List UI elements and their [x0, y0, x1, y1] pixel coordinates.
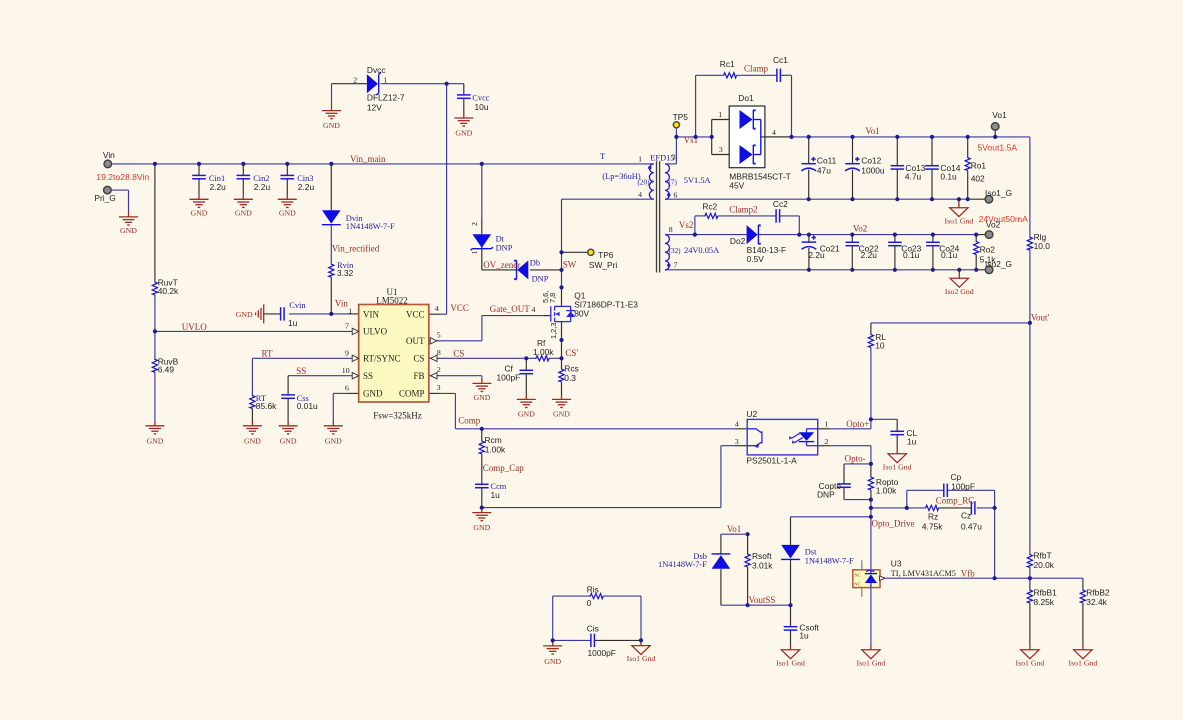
svg-text:10.0: 10.0 — [1034, 241, 1051, 251]
svg-text:Vfb: Vfb — [961, 569, 975, 579]
svg-text:9: 9 — [345, 349, 349, 358]
wire Copto loop — [844, 464, 871, 500]
svg-text:8.25k: 8.25k — [1034, 597, 1055, 607]
svg-text:Vo2: Vo2 — [986, 219, 1001, 229]
svg-text:3: 3 — [719, 145, 723, 154]
capacitor Cis — [587, 624, 616, 658]
svg-text:3.32: 3.32 — [337, 268, 354, 278]
svg-text:CS': CS' — [565, 348, 578, 358]
diode Dsb 1N4148W-7-F — [658, 552, 730, 569]
svg-text:FB: FB — [413, 371, 424, 381]
svg-text:2: 2 — [470, 222, 479, 226]
diode Dst 1N4148W-7-F — [781, 545, 854, 566]
svg-text:GND: GND — [325, 436, 342, 445]
capacitor Cc1 — [773, 55, 788, 82]
wire Ccm junction to opto pin3 — [482, 446, 747, 508]
label net UVLO — [182, 322, 207, 332]
svg-text:12V: 12V — [367, 102, 382, 112]
wire Cf branch — [525, 358, 527, 394]
svg-text:Gate_OUT: Gate_OUT — [490, 304, 530, 314]
resistor Rsoft — [745, 551, 773, 570]
svg-text:(32): (32) — [669, 247, 682, 255]
svg-text:4: 4 — [435, 304, 439, 313]
wire Ro1 leads — [967, 137, 969, 199]
resistor Rc1 — [720, 59, 737, 78]
svg-text:10u: 10u — [475, 102, 489, 112]
resistor RuvB — [152, 356, 178, 374]
svg-text:Iso2_G: Iso2_G — [985, 259, 1012, 269]
ground GND (Pri_G) — [119, 212, 138, 235]
Q1 labels — [541, 290, 639, 339]
svg-text:Opto-: Opto- — [845, 453, 866, 463]
svg-text:1: 1 — [825, 420, 829, 429]
svg-text:Do1: Do1 — [738, 93, 754, 103]
svg-text:8: 8 — [669, 225, 673, 234]
svg-text:5: 5 — [437, 331, 441, 340]
svg-text:(7): (7) — [669, 179, 678, 187]
capacitor Cin2 — [237, 164, 271, 195]
wire Dt branch from Vin_main — [482, 164, 518, 270]
wire transformer pin1 from bus — [645, 163, 654, 165]
capacitor Co12 polarized — [845, 155, 885, 175]
svg-text:Rcm: Rcm — [485, 435, 502, 445]
label net Comp — [458, 416, 481, 426]
wire Vo1 port stub — [994, 130, 996, 137]
svg-text:Opto+: Opto+ — [846, 419, 869, 429]
svg-text:1u: 1u — [288, 318, 298, 328]
svg-text:1: 1 — [348, 307, 352, 316]
svg-text:4.7u: 4.7u — [905, 172, 922, 182]
label net Vo1 (rail) — [865, 126, 879, 136]
wire Do1 input bracket — [712, 120, 740, 155]
svg-text:3: 3 — [672, 153, 676, 162]
label 5Vout1.5A — [977, 142, 1017, 152]
wire Ro2 leads — [975, 235, 977, 270]
svg-text:Fsw=325kHz: Fsw=325kHz — [373, 410, 422, 420]
resistor RuvT — [152, 278, 179, 296]
transistor Q1 SI7186DP MOSFET — [551, 305, 575, 326]
capacitor Co13 — [891, 163, 926, 182]
svg-text:Vin: Vin — [335, 299, 348, 309]
capacitor Co22 — [846, 242, 879, 260]
svg-text:Rc1: Rc1 — [720, 59, 735, 69]
svg-text:2.2u: 2.2u — [861, 250, 878, 260]
svg-text:NC: NC — [854, 572, 860, 577]
wire RT branch — [252, 358, 358, 422]
wire Db to SW — [530, 269, 561, 271]
svg-text:RT: RT — [262, 348, 273, 358]
ground GND (U1 pin6) — [324, 421, 343, 446]
label net Vin (pin1) — [335, 299, 352, 316]
label net VCC — [450, 303, 469, 313]
capacitor CL — [890, 428, 917, 446]
svg-text:U3: U3 — [891, 559, 902, 569]
svg-text:2.2u: 2.2u — [808, 250, 825, 260]
wire FB pin to GND — [429, 376, 482, 379]
label net CS — [453, 349, 464, 359]
wire CL branch — [871, 419, 897, 449]
svg-text:GND: GND — [363, 389, 383, 399]
svg-text:2: 2 — [437, 365, 441, 374]
wire Opto_Drive row (Rz Cz) — [871, 508, 995, 578]
wire Cp loop — [907, 490, 995, 508]
wire transformer pin4 to SW — [562, 198, 654, 200]
wire VCC net vertical — [429, 84, 447, 315]
port Vo1 — [991, 110, 1007, 130]
svg-text:3: 3 — [437, 383, 441, 392]
wire Vout' to RfbT — [1029, 323, 1031, 578]
wire Vo1 rail — [765, 137, 1030, 323]
ground GND (Cf) — [517, 394, 536, 418]
capacitor Cin1 — [192, 164, 226, 195]
svg-text:Vout': Vout' — [1031, 312, 1050, 322]
wire UVLO — [155, 330, 359, 332]
wire RuvT/RuvB divider column — [154, 164, 156, 421]
svg-text:GND: GND — [553, 410, 570, 419]
U1 output/CS/FB arrows — [430, 338, 437, 379]
svg-text:Vin_rectified: Vin_rectified — [332, 244, 380, 254]
label net Vout' — [1031, 312, 1050, 322]
svg-text:1,2,3: 1,2,3 — [549, 323, 558, 339]
capacitor Cin3 — [281, 164, 315, 195]
U1 pin numbers — [342, 304, 441, 393]
svg-text:Ro1: Ro1 — [971, 160, 987, 170]
wire Vfb row — [886, 577, 1083, 579]
svg-text:Cvin: Cvin — [289, 301, 306, 310]
svg-text:4: 4 — [772, 128, 776, 137]
port Vo2 — [985, 219, 1000, 238]
svg-text:Cc2: Cc2 — [773, 199, 788, 209]
svg-text:EFD15: EFD15 — [650, 153, 674, 162]
svg-text:Vs2: Vs2 — [679, 220, 694, 230]
svg-text:NC: NC — [854, 582, 860, 587]
ground Iso1 Gnd (U3) — [856, 645, 885, 668]
label net VoutSS — [749, 595, 776, 605]
wire Rcm / Ccm branch — [481, 429, 483, 508]
svg-text:PS2501L-1-A: PS2501L-1-A — [746, 455, 797, 465]
svg-text:T: T — [600, 152, 605, 161]
ground GND (Cvcc) — [454, 113, 473, 137]
diode Dt zener DNP — [470, 222, 512, 255]
svg-text:1000u: 1000u — [861, 166, 885, 176]
svg-text:1: 1 — [718, 110, 722, 119]
resistor RL — [868, 332, 886, 351]
svg-text:1N4148W-7-F: 1N4148W-7-F — [346, 222, 395, 231]
label net Clamp — [744, 64, 768, 74]
svg-text:GND: GND — [120, 226, 137, 235]
wire opto pin1 / Opto+ node — [818, 419, 871, 429]
wire RfbB2 branch — [1082, 578, 1084, 645]
svg-text:SW: SW — [563, 260, 577, 270]
svg-text:TP5: TP5 — [673, 112, 689, 122]
svg-text:(Lp=36uH): (Lp=36uH) — [602, 172, 640, 181]
capacitor Copto DNP — [817, 481, 851, 500]
svg-text:Clamp2: Clamp2 — [729, 204, 758, 214]
ground Iso1 Gnd (RfbB2) — [1068, 645, 1097, 668]
svg-text:SS: SS — [363, 371, 373, 381]
svg-text:0.3: 0.3 — [564, 373, 576, 383]
label 24Vout50mA — [979, 214, 1028, 224]
svg-text:Db: Db — [530, 258, 540, 267]
wire Pri_G to GND — [111, 190, 129, 212]
svg-text:85.6k: 85.6k — [256, 401, 277, 411]
ground Iso1 Gnd (Csoft) — [776, 645, 805, 668]
wire Csoft branch — [790, 605, 792, 645]
port Pri_G — [94, 186, 115, 203]
svg-text:GND: GND — [279, 208, 296, 217]
label net Opto+ — [846, 419, 869, 429]
wire GND pin 6 — [333, 393, 358, 421]
wire Ropto branch — [870, 464, 872, 500]
svg-text:Cc1: Cc1 — [773, 55, 788, 65]
wire transformer pin3 / Vs1 / TP5 — [665, 128, 712, 164]
svg-text:OUT: OUT — [406, 336, 425, 346]
optocoupler U2 PS2501L-1-A — [746, 409, 817, 466]
svg-text:GND: GND — [473, 393, 490, 402]
resistor Ro1 — [965, 157, 986, 184]
capacitor Co23 — [888, 242, 922, 260]
ground GND (Cis) — [543, 641, 562, 666]
wire Vin_main bus — [111, 163, 645, 165]
svg-text:0.47u: 0.47u — [961, 521, 982, 531]
svg-text:1u: 1u — [799, 631, 809, 641]
U2 pin numbers — [735, 420, 829, 446]
capacitor Co11 polarized — [801, 155, 836, 175]
capacitor Cvcc — [457, 93, 490, 112]
svg-text:Dst: Dst — [805, 548, 817, 557]
ground Iso1 Gnd (output1) — [944, 199, 973, 225]
wire TP6 stub — [562, 251, 588, 253]
transformer T EFD15 — [648, 161, 670, 272]
svg-text:Ris: Ris — [587, 585, 599, 595]
label net Comp_RC — [936, 495, 975, 505]
svg-text:2.2u: 2.2u — [254, 182, 271, 192]
svg-text:32.4k: 32.4k — [1086, 597, 1107, 607]
svg-text:GND: GND — [544, 657, 561, 666]
wire Rlg column (Vout' feed) — [871, 323, 1030, 419]
svg-text:6.49: 6.49 — [158, 364, 175, 374]
svg-text:Iso1 Gnd: Iso1 Gnd — [883, 462, 912, 471]
capacitor Cvin — [281, 301, 307, 328]
svg-text:6: 6 — [345, 384, 349, 393]
svg-text:20.0k: 20.0k — [1034, 560, 1055, 570]
wire U3 cathode/anode column — [870, 588, 872, 645]
ground GND (Cin1) — [190, 194, 209, 217]
ground Iso1 Gnd (RfbB1) — [1015, 645, 1044, 668]
port Iso2_G — [985, 259, 1012, 274]
ground GND (RuvB) — [145, 421, 164, 446]
svg-text:Vin: Vin — [103, 150, 115, 160]
diode Do2 B140-13-F — [730, 225, 786, 264]
diode Dvcc zener DFLZ12-7 — [353, 65, 405, 112]
wire SS branch / Css — [288, 376, 359, 422]
label net Vfb — [961, 569, 975, 579]
svg-text:100pF: 100pF — [497, 373, 521, 383]
resistor Rcm — [479, 435, 506, 455]
wire COMP net — [429, 393, 747, 428]
label net Vo1 (soft-start stub) — [727, 524, 741, 534]
svg-text:VIN: VIN — [363, 309, 379, 319]
svg-text:GND: GND — [323, 121, 340, 130]
ground GND (Cin2) — [234, 194, 253, 217]
svg-text:Rz: Rz — [928, 511, 938, 521]
svg-text:24V0.05A: 24V0.05A — [684, 246, 719, 255]
svg-text:1: 1 — [383, 75, 387, 84]
svg-text:4: 4 — [638, 190, 642, 199]
svg-text:TP6: TP6 — [598, 250, 614, 260]
svg-text:1: 1 — [470, 251, 479, 255]
svg-text:Rc2: Rc2 — [702, 201, 717, 211]
svg-text:Vo1: Vo1 — [865, 126, 879, 136]
port Iso1_G — [985, 188, 1012, 203]
resistor RfbT — [1027, 550, 1055, 570]
wire Dvin/Rvin branch — [330, 164, 332, 314]
svg-text:GND: GND — [235, 208, 252, 217]
testpoint TP6 — [588, 249, 618, 270]
svg-text:GND: GND — [280, 436, 297, 445]
svg-text:Dt: Dt — [496, 234, 505, 243]
label net Opto_Drive — [872, 519, 915, 529]
svg-text:0.1u: 0.1u — [903, 250, 920, 260]
resistor RfbB1 — [1027, 587, 1057, 607]
resistor Ris — [587, 585, 604, 608]
svg-text:GND: GND — [455, 128, 472, 137]
svg-text:3: 3 — [735, 437, 739, 446]
svg-text:GND: GND — [191, 208, 208, 217]
resistor Rlg — [1027, 232, 1050, 251]
svg-text:DFLZ12-7: DFLZ12-7 — [367, 93, 405, 103]
label net SW — [563, 260, 577, 270]
port Vin — [103, 150, 115, 168]
svg-text:Vin_main: Vin_main — [350, 154, 386, 164]
svg-text:Do2: Do2 — [730, 236, 746, 246]
svg-text:4: 4 — [532, 305, 536, 314]
wire Dvcc anode to GND — [332, 84, 367, 106]
svg-text:0.1u: 0.1u — [941, 250, 958, 260]
label net Opto- — [845, 453, 866, 463]
wire Dvcc cathode / Cvcc — [381, 84, 464, 113]
wire Rc1 Cc1 clamp loop — [696, 75, 792, 137]
wire VIN pin / Cvin — [264, 313, 359, 315]
label 19.2to28.8Vin — [96, 172, 149, 182]
U1 input pin arrows — [352, 328, 359, 379]
wire Rc2 Cc2 clamp loop — [695, 216, 799, 235]
svg-text:40.2k: 40.2k — [158, 286, 179, 296]
capacitor Co21 polarized — [802, 235, 841, 260]
svg-text:2.2u: 2.2u — [298, 182, 315, 192]
svg-text:VoutSS: VoutSS — [749, 595, 776, 605]
label net Vs1 and testpoint TP5 — [673, 112, 699, 145]
label Fsw=325kHz — [373, 410, 422, 420]
wire Co21 leads — [808, 235, 810, 270]
wire Iso1 rail (secondary1 return) — [665, 198, 985, 200]
label net CS' — [565, 348, 578, 358]
op-amp U1 LM5022 controller — [359, 287, 429, 402]
svg-text:GND: GND — [244, 436, 261, 445]
svg-text:7: 7 — [674, 261, 678, 270]
svg-text:Comp: Comp — [458, 416, 481, 426]
svg-text:LM5022: LM5022 — [376, 295, 408, 305]
svg-text:2: 2 — [353, 75, 357, 84]
wire RfbB1 to Iso1 Gnd — [1029, 578, 1031, 645]
svg-text:7: 7 — [345, 322, 349, 331]
svg-text:VCC: VCC — [406, 309, 425, 319]
svg-text:Cis: Cis — [587, 624, 599, 634]
svg-text:UVLO: UVLO — [182, 322, 207, 332]
svg-text:8: 8 — [437, 348, 441, 357]
wire CS row / Rf / CS' — [429, 357, 562, 359]
label net SS — [296, 366, 306, 376]
svg-text:2: 2 — [825, 437, 829, 446]
svg-text:Ro2: Ro2 — [980, 245, 996, 255]
wire Co14 leads — [931, 137, 933, 199]
wire Ris/Cis bridge loop — [553, 596, 641, 640]
svg-text:RT/SYNC: RT/SYNC — [363, 353, 400, 363]
wire Rsoft leads — [747, 534, 749, 605]
label net Vs2 — [679, 220, 694, 230]
label net Vo2 (rail) — [853, 223, 867, 233]
resistor Rvin — [329, 261, 354, 278]
wire Ccm junction to GND — [481, 508, 483, 509]
svg-text:0.5V: 0.5V — [747, 254, 765, 264]
svg-text:19.2to28.8Vin: 19.2to28.8Vin — [96, 172, 149, 182]
resistor RfbB2 — [1080, 587, 1110, 607]
ground Iso1 Gnd (CL) — [883, 449, 912, 472]
transformer pin numbers — [638, 153, 677, 270]
svg-text:3.01k: 3.01k — [752, 561, 773, 571]
capacitor Css — [281, 394, 318, 411]
wire Rcs to GND — [561, 358, 563, 394]
ground GND (FB) — [472, 378, 491, 402]
wire Iso2 rail (secondary2 return) — [665, 269, 985, 271]
svg-text:Iso1 Gnd: Iso1 Gnd — [1068, 658, 1097, 667]
svg-text:DNP: DNP — [532, 275, 549, 284]
resistor Ro2 — [974, 241, 997, 265]
ground GND (Cvin, rotated) — [236, 304, 264, 323]
svg-text:0.01u: 0.01u — [297, 401, 318, 411]
svg-text:4.75k: 4.75k — [922, 521, 943, 531]
svg-text:Cz: Cz — [961, 511, 971, 521]
svg-text:0.1u: 0.1u — [940, 172, 957, 182]
capacitor Cz — [961, 501, 982, 531]
wire Co23 leads — [894, 235, 896, 270]
wire SW column (primary switch node) — [561, 199, 563, 358]
svg-text:VCC: VCC — [450, 303, 469, 313]
ground GND (RT) — [243, 421, 262, 446]
svg-text:Clamp: Clamp — [744, 64, 768, 74]
svg-text:Iso1 Gnd: Iso1 Gnd — [1015, 658, 1044, 667]
wire Co11 leads — [808, 137, 810, 199]
ground GND (Cin3) — [278, 194, 297, 217]
resistor RT — [250, 394, 277, 411]
wire Dst branch — [791, 517, 871, 605]
svg-text:RfbT: RfbT — [1034, 550, 1052, 560]
svg-text:SW_Pri: SW_Pri — [589, 260, 618, 270]
svg-text:5V1.5A: 5V1.5A — [684, 176, 711, 185]
svg-text:10: 10 — [875, 341, 885, 351]
svg-text:0: 0 — [587, 598, 592, 608]
capacitor Co24 — [926, 242, 960, 260]
svg-text:Vo1: Vo1 — [992, 110, 1007, 120]
svg-text:U2: U2 — [746, 409, 757, 419]
resistor Ropto — [868, 476, 898, 495]
svg-text:GND: GND — [473, 523, 490, 532]
svg-text:1N4148W-7-F: 1N4148W-7-F — [658, 560, 707, 569]
svg-text:Opto_Drive: Opto_Drive — [872, 519, 915, 529]
svg-text:1.00k: 1.00k — [876, 485, 897, 495]
shunt regulator U3 LMV431 — [853, 559, 956, 597]
resistor Rf — [533, 338, 554, 361]
